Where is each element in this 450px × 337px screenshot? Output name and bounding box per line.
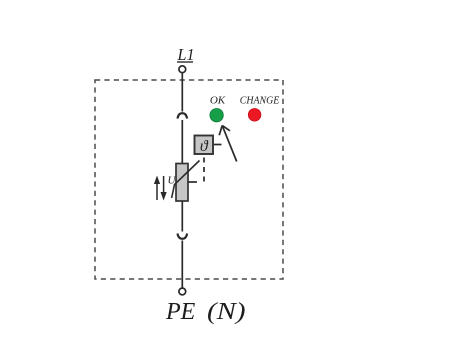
mechanical linkage dashed — [203, 158, 205, 183]
wire L1 to top contact — [181, 73, 183, 112]
status arrow to LED — [219, 126, 237, 162]
svg-text:(N): (N) — [207, 299, 246, 325]
plug-in contact bottom — [178, 234, 188, 239]
svg-text:L1: L1 — [177, 45, 195, 64]
wire varistor to bottom contact — [181, 201, 183, 232]
svg-text:U: U — [168, 175, 177, 187]
wire contact to PE terminal — [181, 241, 183, 289]
terminal L1 — [179, 66, 186, 73]
svg-text:ϑ: ϑ — [200, 138, 209, 155]
svg-text:PE: PE — [165, 299, 196, 325]
node L1 — [177, 45, 195, 64]
arrow down — [161, 176, 167, 201]
svg-text:CHANGE: CHANGE — [240, 95, 280, 107]
enclosure dashed box — [95, 80, 283, 279]
arrow up — [154, 176, 160, 201]
svg-text:OK: OK — [210, 95, 226, 107]
plug-in contact top — [178, 113, 188, 118]
varistor diagonal — [172, 161, 200, 199]
wire contact to varistor — [181, 120, 183, 164]
varistor body — [176, 164, 188, 202]
thermal disconnector — [195, 136, 222, 156]
LED CHANGE red — [248, 109, 261, 122]
LED OK green — [210, 109, 223, 122]
varistor stub to linkage — [189, 181, 198, 183]
terminal PE — [179, 288, 186, 295]
